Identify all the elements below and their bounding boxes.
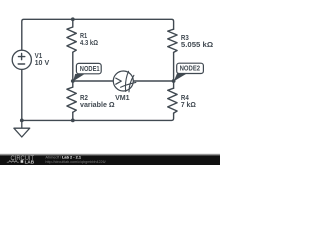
resistor R2: [67, 87, 76, 112]
ground: [14, 120, 30, 137]
V1 minus sign: [18, 63, 24, 65]
svg-text:10 V: 10 V: [35, 58, 50, 67]
voltmeter VM1: [113, 71, 133, 91]
svg-text:NODE2: NODE2: [180, 64, 201, 73]
wire right branch bottom and bottom rail: [22, 113, 174, 120]
node NODE2 flag tail: [174, 74, 186, 82]
svg-text:7 kΩ: 7 kΩ: [181, 100, 196, 109]
wire R1 top stub: [72, 19, 74, 27]
junction node bottom center: [71, 119, 75, 123]
junction node NODE2 net: [172, 79, 176, 83]
svg-text:http://circuitlab.com/c/qbgmbb: http://circuitlab.com/c/qbgmbbh4226/: [45, 160, 106, 164]
VM1 polarity chevron: [116, 78, 122, 84]
voltage source V1: [12, 50, 31, 69]
wire VM1 left: [73, 80, 114, 82]
watermark bar: [0, 153, 220, 165]
resistor R3: [168, 29, 177, 52]
junction node NODE1 net: [71, 79, 75, 83]
node NODE1 flag tail: [73, 74, 84, 82]
wire R2 bottom stub: [72, 112, 74, 120]
svg-text:Ahmedf / Lab 2 - 2.1: Ahmedf / Lab 2 - 2.1: [45, 154, 82, 159]
svg-text:5.055 kΩ: 5.055 kΩ: [181, 40, 213, 49]
wire right branch middle: [173, 52, 175, 88]
wire left branch bottom: [21, 69, 23, 120]
svg-text:variable Ω: variable Ω: [80, 100, 115, 109]
junction node top rail / R1: [71, 17, 75, 21]
svg-text:VM1: VM1: [115, 93, 130, 102]
node NODE2 flag box: [177, 63, 204, 73]
resistor R1: [67, 27, 76, 52]
node NODE1 flag box: [76, 63, 101, 73]
junction node bottom left ground: [20, 119, 24, 123]
svg-text:LAB: LAB: [25, 159, 35, 164]
wire R1 to R2 middle column: [72, 52, 74, 87]
svg-text:4.3 kΩ: 4.3 kΩ: [80, 38, 98, 47]
V1 plus sign: [18, 54, 25, 65]
resistor R4: [168, 88, 177, 113]
VM1 meter needle arcs: [121, 71, 136, 92]
svg-text:NODE1: NODE1: [80, 64, 100, 73]
wire VM1 right: [133, 80, 173, 82]
wire top rail: [22, 19, 174, 50]
